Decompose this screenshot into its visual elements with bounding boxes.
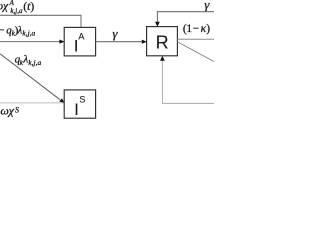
svg-text:γ: γ	[204, 0, 210, 12]
svg-text:R: R	[156, 32, 169, 52]
svg-text:−: −	[193, 23, 200, 35]
svg-text:): )	[30, 0, 34, 13]
label I^S inside box	[74, 94, 85, 119]
label I^A inside box	[74, 31, 85, 55]
node label omega*chi^A_{k,j,a}(t) (clipped at left edge)	[0, 0, 34, 15]
svg-text:1: 1	[186, 23, 192, 35]
svg-text:ωχ: ωχ	[0, 104, 14, 118]
diagonal wire from right edge of R off image bottom-right	[177, 42, 214, 62]
svg-text:k,j,a: k,j,a	[10, 7, 23, 15]
svg-text:S: S	[79, 94, 85, 104]
svg-text:): )	[206, 23, 210, 35]
diagonal arrow q_k lambda into left edge of I^S	[0, 54, 60, 100]
label omega*chi^S (clipped at bottom-left)	[0, 104, 19, 118]
arrow (1-q_k)lambda into left of I^A	[0, 41, 60, 43]
svg-text:A: A	[9, 0, 15, 7]
label (1-q_k)lambda_{k,j,a} (clipped at left edge)	[0, 25, 36, 38]
box I^A	[64, 27, 95, 56]
gray wire omega*chi^S into left of I^S	[0, 102, 64, 104]
wire gamma from right edge down into top of R	[157, 12, 214, 23]
svg-text:k,j,a: k,j,a	[28, 58, 41, 67]
wire from chi^A label into top of I^A box	[0, 15, 81, 27]
box I^S	[64, 90, 95, 118]
arrow gamma from I^A right edge to R left edge	[96, 41, 142, 43]
wire from right edge up into bottom of R	[162, 60, 214, 103]
wire (1-kappa) from right edge of R off image, horizontal	[177, 38, 214, 40]
svg-text:S: S	[15, 105, 19, 114]
svg-text:k,j,a: k,j,a	[22, 29, 35, 38]
svg-text:I: I	[74, 101, 79, 119]
label (1-kappa)	[183, 23, 210, 35]
label q_k lambda_{k,j,a} on diagonal	[15, 54, 42, 67]
svg-text:γ: γ	[112, 26, 118, 41]
svg-text:−: −	[0, 25, 4, 37]
box R	[147, 27, 178, 56]
svg-text:ωχ: ωχ	[0, 0, 9, 13]
svg-text:A: A	[78, 31, 84, 41]
